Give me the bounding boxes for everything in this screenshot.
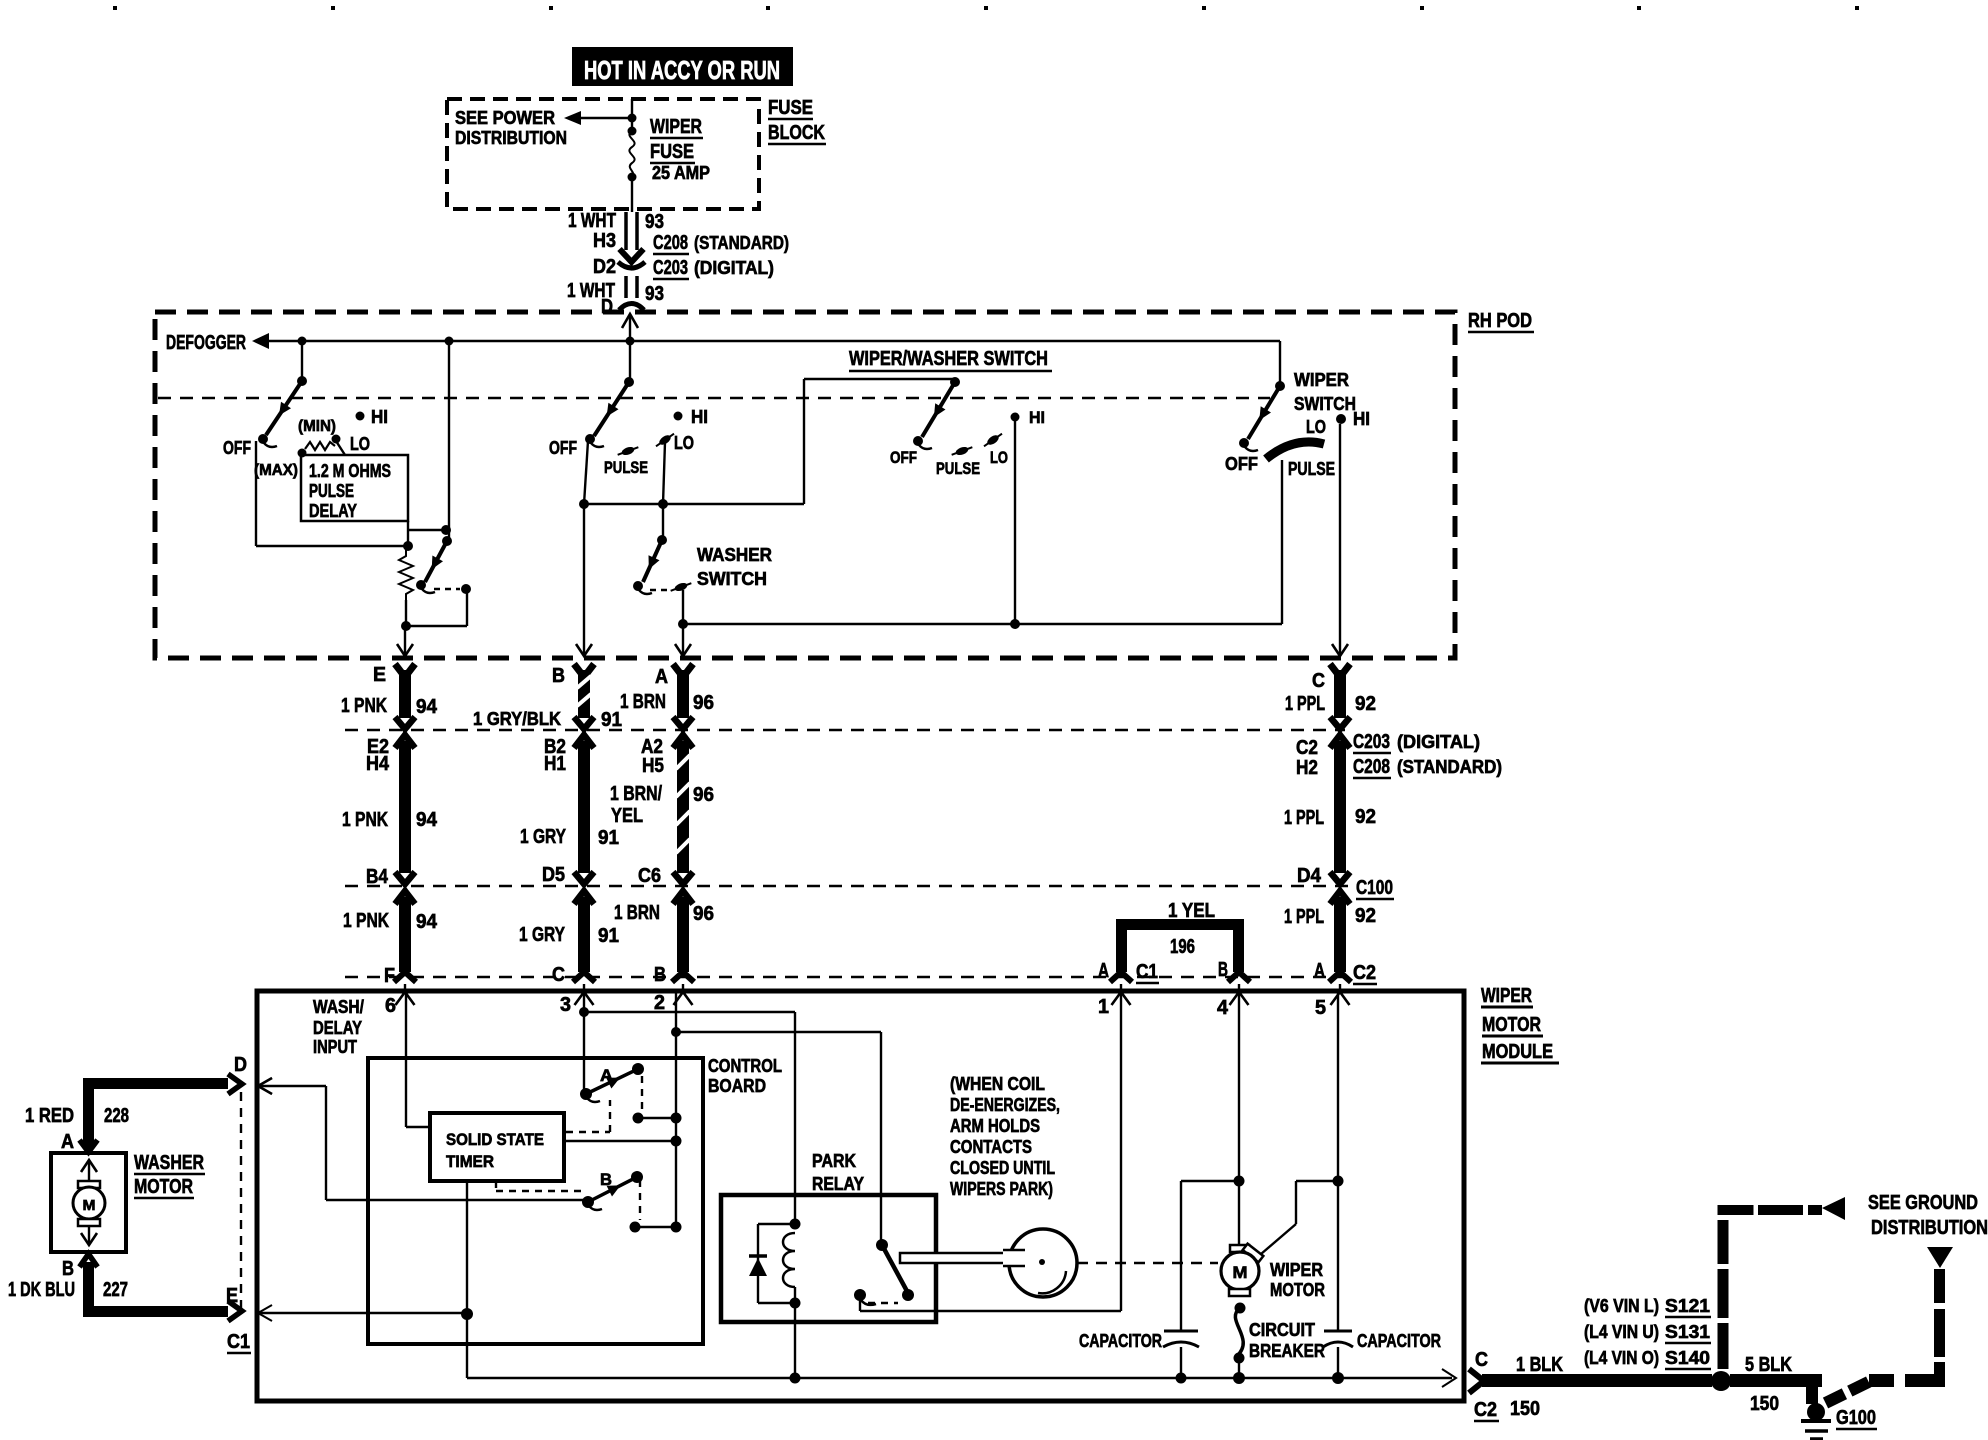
relay switch B (582, 1170, 643, 1210)
wire switch2 OFF to pod pin B (579, 441, 589, 654)
svg-text:91: 91 (598, 827, 619, 849)
label SEE GROUND DISTRIBUTION (1868, 1192, 1988, 1239)
svg-text:SEE GROUND: SEE GROUND (1868, 1192, 1978, 1214)
svg-text:OFF: OFF (223, 438, 251, 458)
contact HI (switch 3) (1011, 408, 1046, 427)
svg-text:(L4 VIN U): (L4 VIN U) (1584, 1322, 1659, 1342)
label E at connector C1 (226, 1285, 238, 1307)
timer dashed output to switch A (566, 1100, 610, 1132)
wire coil to module ground rail (794, 1303, 796, 1378)
svg-text:BLOCK: BLOCK (768, 122, 825, 144)
svg-text:(MIN): (MIN) (298, 418, 336, 435)
svg-text:C203: C203 (1353, 731, 1390, 753)
svg-text:WIPER: WIPER (1270, 1260, 1323, 1280)
wire 1 BRN/YEL 96 pins A2/H5 (C203 to C100) (610, 735, 714, 884)
svg-text:WASHER: WASHER (134, 1152, 204, 1174)
contact PULSE (switch 2) (604, 444, 648, 477)
wire timer ground leg (461, 1181, 473, 1378)
svg-text:3: 3 (560, 994, 571, 1016)
svg-text:A: A (1098, 960, 1109, 982)
wire switch3 HI to bus (1010, 419, 1020, 629)
svg-text:WASHER: WASHER (697, 545, 772, 565)
svg-text:96: 96 (693, 784, 714, 806)
svg-text:5 BLK: 5 BLK (1745, 1354, 1792, 1376)
svg-text:C208: C208 (653, 232, 688, 254)
svg-text:MOTOR: MOTOR (1270, 1280, 1325, 1300)
wire from fuse block top edge to fuse (628, 99, 637, 136)
switch A linkage dashes (633, 1076, 682, 1124)
capacitor C2 (right) (1323, 1331, 1353, 1378)
svg-text:91: 91 (598, 925, 619, 947)
svg-text:C: C (552, 964, 565, 986)
contact LO (switch 3) (982, 431, 1008, 467)
wire 5 BLK 150 (splice to ground) (1730, 1354, 1822, 1415)
svg-text:1 PPL: 1 PPL (1284, 906, 1324, 928)
svg-text:BREAKER: BREAKER (1249, 1341, 1325, 1361)
svg-text:96: 96 (693, 903, 714, 925)
svg-text:1 PPL: 1 PPL (1284, 807, 1324, 829)
label 1.2 M OHMS PULSE DELAY (309, 461, 391, 521)
wiper motor M1 (1221, 1244, 1263, 1296)
wire defogger feed line (252, 333, 1280, 349)
svg-text:MOTOR: MOTOR (134, 1176, 193, 1198)
label WASH/DELAY INPUT (313, 997, 364, 1057)
switch B linkage dashes (630, 1180, 682, 1233)
svg-text:M: M (1233, 1263, 1248, 1282)
svg-text:CONTROL: CONTROL (708, 1056, 782, 1076)
svg-text:PULSE: PULSE (936, 459, 980, 478)
svg-text:HI: HI (1353, 409, 1370, 429)
label WASHER SWITCH (697, 545, 772, 589)
svg-text:RH POD: RH POD (1468, 310, 1532, 332)
svg-text:1 PPL: 1 PPL (1285, 693, 1325, 715)
wire to power distribution with arrow (564, 111, 630, 125)
connector row C203/C208 dashed line (345, 729, 1345, 731)
svg-text:1 PNK: 1 PNK (341, 695, 387, 717)
module pin 1 arrow (1098, 984, 1131, 1018)
svg-text:(V6 VIN L): (V6 VIN L) (1584, 1296, 1659, 1316)
svg-text:WIPERS PARK): WIPERS PARK) (950, 1179, 1053, 1199)
linkage dashes washer switch (650, 589, 670, 591)
svg-text:5: 5 (1315, 997, 1326, 1019)
svg-text:C2: C2 (1296, 737, 1318, 759)
svg-text:DISTRIBUTION: DISTRIBUTION (455, 128, 567, 148)
svg-text:1 PNK: 1 PNK (343, 910, 389, 932)
svg-text:S131: S131 (1665, 1322, 1710, 1342)
svg-text:C2: C2 (1353, 962, 1376, 984)
svg-text:H2: H2 (1296, 757, 1318, 779)
svg-text:92: 92 (1355, 905, 1376, 927)
control board enclosure (368, 1058, 703, 1344)
svg-text:1 GRY/BLK: 1 GRY/BLK (473, 709, 561, 729)
contact HI (switch 2) (674, 407, 709, 427)
svg-text:94: 94 (416, 911, 438, 933)
junction node on defogger line (switch1) (298, 337, 307, 346)
module pin 2 arrow (654, 984, 693, 1014)
svg-text:DELAY: DELAY (313, 1018, 362, 1038)
washer switch output contact (669, 580, 692, 629)
svg-text:DEFOGGER: DEFOGGER (166, 332, 246, 354)
pod entry connector for pin D (622, 314, 638, 341)
label WASHER MOTOR (134, 1152, 205, 1198)
junction node on defogger line (switch2) (626, 337, 635, 346)
svg-text:D2: D2 (593, 256, 616, 278)
svg-text:92: 92 (1355, 806, 1376, 828)
svg-text:(MAX): (MAX) (254, 462, 298, 479)
wire 1 BRN 96 connector A (pod to C203) (620, 644, 714, 729)
label WIPER MOTOR (module) (1270, 1260, 1325, 1300)
svg-text:150: 150 (1510, 1398, 1540, 1420)
wire feed to delay switch pivot (301, 341, 303, 381)
contact LO (delay switch) (332, 434, 371, 454)
module pin 3 arrow (560, 984, 594, 1016)
svg-text:HI: HI (371, 407, 388, 427)
wire switch4 HI to pod pin C (1339, 424, 1341, 654)
contact HI (delay switch) (356, 407, 389, 427)
wire 1 RED 228 (washer motor A to module D) (25, 1074, 242, 1153)
svg-text:(DIGITAL): (DIGITAL) (1397, 732, 1480, 752)
svg-text:S121: S121 (1665, 1296, 1710, 1316)
park cam wheel (1003, 1229, 1077, 1297)
wire 1 WHT 93 (C203 to RH POD pin D) (567, 276, 664, 318)
fuse block enclosure (dashed) (447, 99, 759, 209)
wire 1 BLK 150 (module C to splice) (1469, 1354, 1712, 1420)
wire pin6 to solid state timer (406, 992, 430, 1127)
wire switch4 PULSE to bus corner (1281, 460, 1283, 624)
label C at connector C2 exit (1475, 1349, 1488, 1371)
off-page ground branch (dashed) (1823, 1247, 1953, 1408)
svg-text:H5: H5 (642, 755, 664, 777)
svg-text:E: E (373, 664, 386, 686)
label RH POD (1468, 310, 1534, 332)
svg-text:BOARD: BOARD (708, 1076, 766, 1096)
label WIPER MOTOR MODULE (1481, 985, 1559, 1063)
module pin 5 arrow (1315, 984, 1350, 1019)
svg-text:93: 93 (645, 211, 664, 233)
park cam actuator rod (900, 1253, 1018, 1263)
svg-text:1 BRN/: 1 BRN/ (610, 783, 662, 805)
wire pin3 to park relay coil (579, 992, 795, 1224)
svg-text:C1: C1 (1136, 961, 1158, 983)
svg-text:D: D (601, 296, 613, 318)
svg-text:PULSE: PULSE (309, 481, 354, 501)
svg-text:FUSE: FUSE (650, 141, 694, 163)
wire center column from defogger line (441, 341, 451, 540)
svg-text:WASH/: WASH/ (313, 997, 364, 1017)
svg-text:C: C (1312, 670, 1325, 692)
label C100 at ladder (1356, 877, 1394, 899)
svg-text:1 DK BLU: 1 DK BLU (8, 1279, 75, 1301)
wire pin5 branch to motor (1261, 1181, 1338, 1254)
timer output to pin2 node (566, 1136, 682, 1147)
svg-text:91: 91 (601, 709, 622, 731)
svg-text:B: B (62, 1258, 74, 1280)
wiper switch 4 wiping arc contact (1266, 442, 1324, 459)
wiper switch 2 arm (OFF position) (585, 377, 634, 447)
washer switch arm (633, 535, 667, 594)
label (MAX) (254, 462, 298, 479)
svg-text:B: B (552, 665, 565, 687)
svg-text:PARK: PARK (812, 1151, 856, 1171)
solid state timer box (430, 1113, 564, 1181)
washer motor M2 (73, 1160, 105, 1245)
svg-text:H1: H1 (544, 753, 566, 775)
svg-text:HI: HI (1029, 408, 1045, 427)
circuit breaker (1234, 1303, 1246, 1379)
wire delay box to junction (403, 521, 447, 551)
wire 1 PNK 94 connector E (pod to C203) (341, 644, 438, 729)
power source banner HOT IN ACCY OR RUN (572, 47, 793, 86)
svg-text:1 RED: 1 RED (25, 1105, 74, 1127)
svg-text:PULSE: PULSE (604, 458, 648, 477)
svg-text:SWITCH: SWITCH (1294, 394, 1356, 414)
svg-text:1 BLK: 1 BLK (1516, 1354, 1563, 1376)
svg-text:G100: G100 (1836, 1407, 1876, 1429)
svg-text:94: 94 (416, 696, 438, 718)
svg-text:CONTACTS: CONTACTS (950, 1137, 1032, 1157)
wire 1 DK BLU 227 (washer motor B to module E) (8, 1254, 242, 1321)
label C1 (227, 1331, 251, 1353)
module top connector row dashed line (345, 976, 1345, 978)
svg-text:(STANDARD): (STANDARD) (694, 233, 789, 253)
svg-text:(WHEN COIL: (WHEN COIL (950, 1074, 1045, 1094)
label C208 (STANDARD) at ladder (1353, 756, 1502, 778)
svg-text:LO: LO (990, 448, 1008, 467)
wire fuse to fuse block bottom edge (631, 177, 633, 212)
wire 1 GRY 91 pins B2/H1 (C203 to C100) (520, 735, 619, 884)
svg-text:1 BRN: 1 BRN (620, 691, 666, 713)
ground G100 (1801, 1403, 1877, 1439)
label OFF (switch 3) (890, 448, 917, 467)
label SOLID STATE TIMER (446, 1130, 544, 1171)
resistor (pulse delay 1.2M) (399, 546, 413, 600)
svg-text:PULSE: PULSE (1288, 459, 1335, 479)
wire 1 WHT 93 (fuse block to C208) (568, 210, 664, 262)
wire feed to wiper switch 4 (1279, 341, 1281, 384)
wire feed to wiper switch 2 pivot (629, 341, 631, 381)
label C2 at module (1353, 962, 1377, 984)
svg-text:CLOSED UNTIL: CLOSED UNTIL (950, 1158, 1055, 1178)
svg-text:93: 93 (645, 283, 664, 305)
diode CR1 (749, 1224, 767, 1303)
wire pin1 to park switch output (1120, 992, 1122, 1311)
svg-text:SOLID STATE: SOLID STATE (446, 1130, 544, 1149)
wiper switch 4 arm (OFF position) (1239, 381, 1285, 451)
wire OFF contact to resistor top (256, 441, 408, 546)
label LO (switch 4) (1306, 417, 1326, 437)
svg-text:FUSE: FUSE (768, 97, 813, 119)
svg-text:25 AMP: 25 AMP (652, 163, 710, 183)
svg-text:DISTRIBUTION: DISTRIBUTION (1871, 1217, 1988, 1239)
washer motor enclosure (51, 1153, 126, 1252)
wire 1 PPL 92 connector C (pod to C203) (1285, 644, 1376, 729)
contact PULSE (switch 3) (936, 444, 980, 478)
svg-text:OFF: OFF (1225, 454, 1258, 474)
svg-text:C208: C208 (1353, 756, 1390, 778)
wire 1 BRN 96 pin C6 (C100 to module B) (614, 865, 714, 986)
svg-text:(STANDARD): (STANDARD) (1397, 757, 1502, 777)
label D at connector C1 (234, 1054, 247, 1076)
module pin 6 arrow (385, 984, 415, 1017)
wire switch B contact to washer motor D (258, 1078, 586, 1200)
connector C1 dashed boundary (240, 1092, 242, 1308)
svg-text:1 YEL: 1 YEL (1168, 900, 1215, 922)
svg-text:SEE POWER: SEE POWER (455, 108, 555, 128)
label C2 at module exit (1474, 1399, 1499, 1421)
svg-text:A: A (1314, 960, 1325, 982)
svg-text:INPUT: INPUT (313, 1037, 357, 1057)
svg-text:MOTOR: MOTOR (1482, 1014, 1541, 1036)
contact LO (switch 2) (654, 431, 694, 453)
svg-text:LO: LO (674, 433, 694, 453)
delay bypass switch arm (416, 536, 452, 593)
label SEE POWER DISTRIBUTION (455, 108, 567, 148)
module internal ground rail (467, 1369, 1456, 1387)
label OFF (switch 4) (1225, 454, 1258, 474)
svg-text:228: 228 (104, 1105, 129, 1127)
svg-text:ARM HOLDS: ARM HOLDS (950, 1116, 1040, 1136)
wire washer motor E input (258, 1305, 467, 1321)
module pin 4 arrow (1217, 984, 1249, 1019)
label WIPER SWITCH (1294, 370, 1356, 414)
park relay enclosure (721, 1195, 936, 1322)
svg-text:OFF: OFF (549, 438, 577, 458)
svg-text:LO: LO (1306, 417, 1326, 437)
wire bus to switch 3 feed (584, 379, 953, 504)
wire pin5 to motor shunt and capacitor (1333, 992, 1344, 1331)
wiper switch 3 arm (OFF position) (913, 377, 960, 449)
svg-text:DELAY: DELAY (309, 501, 357, 521)
svg-text:D: D (234, 1054, 247, 1076)
label PULSE (switch 4) (1288, 459, 1335, 479)
label (MIN) (298, 418, 336, 435)
svg-text:1 GRY: 1 GRY (520, 826, 567, 848)
splice node S (1711, 1371, 1731, 1391)
wire 1 PNK 94 pin B4 (C100 to module F) (343, 866, 438, 987)
svg-text:6: 6 (385, 995, 396, 1017)
svg-text:1 PNK: 1 PNK (342, 809, 388, 831)
svg-text:227: 227 (103, 1279, 128, 1301)
svg-text:4: 4 (1217, 997, 1229, 1019)
svg-text:2: 2 (654, 992, 665, 1014)
svg-text:HI: HI (691, 407, 708, 427)
connector C203 (DIGITAL) pin D2 (593, 256, 774, 279)
connector C208 (STANDARD) pin H3 (593, 230, 789, 254)
svg-text:A: A (655, 666, 668, 688)
relay switch A (580, 1063, 644, 1102)
label DEFOGGER (166, 332, 246, 354)
wire resistor to pod pin E (401, 600, 411, 654)
svg-text:DE-ENERGIZES,: DE-ENERGIZES, (950, 1095, 1060, 1115)
label WIPER/WASHER SWITCH (849, 348, 1052, 371)
wire 1 PNK 94 pins E2/H4 (C203 to C100) (342, 735, 438, 884)
svg-text:CIRCUIT: CIRCUIT (1249, 1320, 1315, 1340)
svg-text:(L4 VIN O): (L4 VIN O) (1584, 1348, 1659, 1368)
svg-text:196: 196 (1170, 936, 1195, 958)
wire 1 PPL 92 pin D4 (C100 to module A at C2) (1284, 865, 1376, 982)
ground splice dashed riser to SEE GROUND DISTRIBUTION (1718, 1197, 1846, 1369)
svg-text:D5: D5 (542, 864, 565, 886)
pulse delay box 1.2 M OHMS (298, 449, 409, 522)
svg-text:1: 1 (1098, 996, 1109, 1018)
svg-text:C2: C2 (1474, 1399, 1497, 1421)
timer dashed output to switch B (496, 1181, 584, 1191)
wire bus to pod pin A (683, 624, 1282, 654)
wiper motor module enclosure (257, 991, 1464, 1401)
svg-text:D4: D4 (1297, 865, 1322, 887)
contact HI (switch 4) (1336, 409, 1370, 429)
svg-text:1 WHT: 1 WHT (568, 210, 616, 232)
svg-text:C: C (1475, 1349, 1488, 1371)
mechanical dashes cam to motor (1077, 1262, 1218, 1264)
svg-text:150: 150 (1750, 1393, 1779, 1415)
svg-text:1 BRN: 1 BRN (614, 902, 660, 924)
label CONTROL BOARD (708, 1056, 782, 1096)
svg-text:H3: H3 (593, 230, 616, 252)
wire 1 PPL 92 pins C2/H2 (C203 to C100) (1284, 735, 1376, 884)
wire pin4 to wiper motor (1234, 992, 1245, 1248)
svg-text:C1: C1 (227, 1331, 250, 1353)
label OFF (delay switch) (223, 438, 251, 458)
svg-text:M: M (83, 1197, 96, 1214)
svg-text:HOT IN ACCY OR RUN: HOT IN ACCY OR RUN (584, 55, 780, 85)
svg-text:YEL: YEL (611, 805, 643, 827)
mechanical linkage dashed line (158, 397, 1270, 399)
svg-text:94: 94 (416, 809, 438, 831)
svg-text:1.2 M OHMS: 1.2 M OHMS (309, 461, 391, 481)
module D input arrow (258, 1078, 272, 1094)
label CAPACITOR (right) (1357, 1331, 1441, 1351)
svg-text:SWITCH: SWITCH (697, 569, 767, 589)
svg-text:WIPER: WIPER (650, 116, 702, 138)
delay switch arm (OFF position) (258, 376, 307, 447)
svg-text:WIPER: WIPER (1294, 370, 1349, 390)
wire 1 GRY 91 pin D5 (C100 to module C) (519, 864, 619, 986)
fuse F WIPER FUSE 25 AMP (628, 116, 711, 183)
svg-text:MODULE: MODULE (1482, 1041, 1553, 1063)
svg-text:WIPER/WASHER SWITCH: WIPER/WASHER SWITCH (849, 348, 1048, 370)
svg-text:96: 96 (693, 692, 714, 714)
svg-text:C203: C203 (653, 257, 688, 279)
wire switch2 LO to washer switch (658, 442, 668, 540)
svg-text:B4: B4 (366, 866, 389, 888)
svg-text:CAPACITOR: CAPACITOR (1357, 1331, 1441, 1351)
svg-text:E: E (226, 1285, 238, 1307)
label B at module pin 4 (1218, 959, 1228, 981)
svg-text:C6: C6 (638, 865, 661, 887)
connector row C100 dashed line (345, 885, 1350, 887)
relay coil (758, 1219, 801, 1309)
svg-text:C100: C100 (1356, 877, 1393, 899)
label OFF (switch 2) (549, 438, 577, 458)
relay armature contacts (854, 1239, 914, 1305)
RH POD enclosure (dashed) (155, 312, 1455, 658)
label A / C1 at module pin 1 (1098, 960, 1159, 983)
junction node on defogger line (center) (445, 337, 454, 346)
label FUSE BLOCK (768, 97, 826, 144)
svg-text:1 GRY: 1 GRY (519, 924, 566, 946)
wire 1 GRY/BLK 91 connector B (pod to C203) (473, 644, 622, 731)
svg-text:OFF: OFF (890, 448, 917, 467)
wire pin2 to relay contact and control board (671, 992, 881, 1245)
svg-text:TIMER: TIMER (446, 1152, 494, 1171)
capacitor C1 (left) (1163, 1181, 1239, 1378)
note WHEN COIL DE-ENERGIZES (950, 1074, 1060, 1199)
resistor (MIN-LO trim) (305, 441, 345, 455)
svg-text:B: B (654, 964, 666, 986)
svg-text:H4: H4 (366, 753, 390, 775)
svg-text:LO: LO (350, 434, 370, 454)
